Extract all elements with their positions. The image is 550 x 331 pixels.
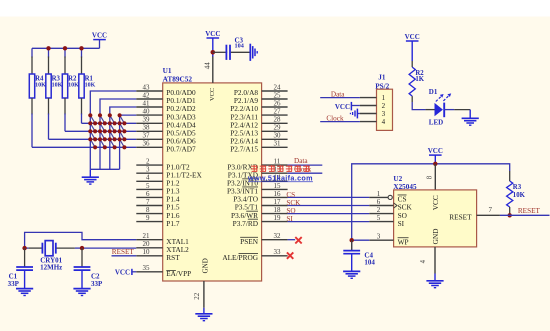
U1 right pin 18 <box>262 213 288 215</box>
capacitor C1 33P <box>24 248 26 267</box>
U1 right pin 13 <box>262 172 288 174</box>
svg-text:SI: SI <box>286 215 293 223</box>
svg-text:18: 18 <box>274 206 282 214</box>
svg-text:R3: R3 <box>513 184 522 191</box>
U1 left pin 4 <box>136 180 162 182</box>
U1 right pin 17 <box>262 205 288 207</box>
svg-text:17: 17 <box>274 198 282 206</box>
wire SI (MCU to U2) <box>288 221 370 223</box>
svg-text:41: 41 <box>143 99 151 107</box>
svg-text:33: 33 <box>274 248 282 256</box>
svg-text:12MHz: 12MHz <box>40 264 62 272</box>
svg-text:21: 21 <box>143 232 151 240</box>
wire key column 4 (from pin 40) <box>120 115 137 169</box>
U1 right pin 31 <box>262 146 288 148</box>
svg-text:30: 30 <box>274 132 282 140</box>
wire key row 4 (to pin 36) <box>32 146 136 148</box>
svg-text:P0.7/AD7: P0.7/AD7 <box>166 145 196 154</box>
LED light arrows <box>436 96 449 102</box>
U1 left pin 42 <box>136 98 162 100</box>
svg-text:1K: 1K <box>415 76 424 83</box>
wire keypad common bus to ground <box>90 168 119 170</box>
U1 left pin 3 <box>136 172 162 174</box>
U1 left pin 39 <box>136 122 162 124</box>
svg-text:VCC: VCC <box>428 147 443 155</box>
ground (U1 GND) <box>195 314 212 321</box>
U2 pin 2 <box>369 213 393 215</box>
U1 right pin 26 <box>262 106 288 108</box>
wire RESET net (right) <box>500 214 550 216</box>
svg-text:R3: R3 <box>52 75 61 82</box>
svg-text:VCC: VCC <box>405 33 420 41</box>
wire key column 2 (from pin 42) <box>100 99 136 169</box>
no-connect X (ALE/PROG) <box>287 252 293 258</box>
wire WP to C4 rail <box>352 239 370 241</box>
IC U1 AT89C52 <box>163 83 262 281</box>
svg-text:X25045: X25045 <box>393 183 417 191</box>
wire SCK (MCU to U2) <box>288 205 370 207</box>
svg-text:10K: 10K <box>52 82 63 88</box>
key switch S9 <box>90 131 95 139</box>
key switch S4 <box>120 115 125 123</box>
U1 right pin 28 <box>262 122 288 124</box>
U1 right pin 11 <box>262 164 288 166</box>
U1 right pin 27 <box>262 114 288 116</box>
resistor R4 10K <box>31 57 33 75</box>
U1 left pin 20 <box>136 247 162 249</box>
svg-text:Clock: Clock <box>326 114 344 122</box>
svg-text:44: 44 <box>203 62 211 70</box>
wire key column 3 (from pin 41) <box>110 107 137 169</box>
ground (keypad) <box>82 177 99 184</box>
power symbol VCC (J1 pin 2) <box>350 102 352 111</box>
svg-text:LED: LED <box>429 119 443 127</box>
svg-text:42: 42 <box>143 91 151 99</box>
ground (C1) <box>16 289 33 296</box>
capacitor C2 33P <box>81 248 83 267</box>
junction dots on VCC bus <box>46 46 50 50</box>
svg-text:RST: RST <box>166 253 180 262</box>
svg-text:40: 40 <box>143 108 151 116</box>
U1 left pin 6 <box>136 196 162 198</box>
svg-text:28: 28 <box>274 116 282 124</box>
IC U2 X25045 <box>394 190 477 247</box>
wire PSEN stub <box>288 239 296 241</box>
junction U2 VCC <box>433 162 437 166</box>
svg-text:33P: 33P <box>91 280 103 288</box>
no-connect X (PSEN) <box>295 237 301 243</box>
key switch S7 <box>110 123 115 131</box>
svg-text:SCK: SCK <box>286 199 301 207</box>
U1 left pin 41 <box>136 106 162 108</box>
U1 left pin 9 <box>136 221 162 223</box>
U2 pin 6 <box>369 205 393 207</box>
svg-text:4: 4 <box>382 118 386 126</box>
svg-text:5: 5 <box>146 182 150 190</box>
svg-text:33P: 33P <box>8 280 20 288</box>
power symbol VCC (U1 pin 44) <box>207 37 220 39</box>
svg-text:P3.7/RD: P3.7/RD <box>233 219 258 228</box>
svg-text:15: 15 <box>274 182 282 190</box>
svg-text:P2.7/A15: P2.7/A15 <box>230 145 258 154</box>
U1 top pin 44 VCC <box>212 56 214 83</box>
svg-text:R2: R2 <box>68 75 77 82</box>
power symbol VCC (U2) <box>429 154 442 156</box>
svg-text:2: 2 <box>382 102 386 110</box>
key switch S11 <box>110 131 115 139</box>
svg-text:GND: GND <box>431 229 440 245</box>
J1 pin 3 <box>360 113 377 115</box>
U1 right pin 14 <box>262 180 288 182</box>
ground (U2 GND) <box>426 281 443 288</box>
U2 pin 8 VCC <box>434 164 436 190</box>
svg-text:J1: J1 <box>378 73 386 81</box>
svg-text:VCC: VCC <box>92 31 107 39</box>
ground (C2) <box>73 289 90 296</box>
junction crystal left <box>22 246 26 250</box>
U1 left pin 8 <box>136 213 162 215</box>
resistor R2 10K <box>64 57 66 75</box>
svg-text:1: 1 <box>377 190 381 198</box>
U1 left pin 2 <box>136 164 162 166</box>
wire R3 to key row 3 <box>48 114 50 140</box>
svg-text:31: 31 <box>274 140 282 148</box>
resistor R1 10K <box>81 57 83 75</box>
svg-text:36: 36 <box>143 140 151 148</box>
svg-text:D1: D1 <box>429 88 438 96</box>
svg-text:19: 19 <box>274 214 282 222</box>
svg-text:SI: SI <box>398 219 405 228</box>
svg-text:10K: 10K <box>513 192 526 199</box>
svg-text:3: 3 <box>146 166 150 174</box>
U1 left pin 36 <box>136 146 162 148</box>
svg-text:9: 9 <box>146 214 150 222</box>
ground (J1 pin 3, rotated left) <box>357 113 360 115</box>
wire key row 3 (to pin 37) <box>49 138 137 140</box>
key switch S12 <box>120 131 125 139</box>
wire Data (J1 pin 1) <box>320 97 360 99</box>
svg-text:16: 16 <box>274 190 282 198</box>
power symbol VCC (R2) <box>406 40 419 42</box>
wire Clock (P3.1) <box>288 172 323 174</box>
svg-text:RESET: RESET <box>449 213 472 222</box>
svg-text:CS: CS <box>286 191 295 199</box>
key switch S10 <box>100 131 105 139</box>
svg-text:6: 6 <box>377 198 381 206</box>
key switch S5 <box>90 123 95 131</box>
wire CS (MCU to U2) <box>288 196 370 198</box>
watermark red text (chinese) <box>251 165 310 172</box>
U2 pin 1 <box>369 196 388 198</box>
wire SO (MCU to U2) <box>288 213 370 215</box>
ground (LED) <box>462 118 479 125</box>
svg-text:104: 104 <box>364 258 375 266</box>
U1 right pin 16 <box>262 196 288 198</box>
svg-text:VCC: VCC <box>335 103 350 111</box>
ground (C4) <box>343 271 360 278</box>
ground (C3, rotated) <box>250 44 257 61</box>
wire XTAL1 net <box>25 232 137 248</box>
svg-text:25: 25 <box>274 91 282 99</box>
resistor R3 10K <box>48 57 50 75</box>
svg-text:39: 39 <box>143 116 151 124</box>
wire R4 to key row 4 <box>31 114 33 148</box>
svg-text:VCC: VCC <box>209 88 216 101</box>
wire RESET to RST pin <box>112 255 137 257</box>
svg-text:43: 43 <box>143 83 151 91</box>
U2 pin 7 RESET <box>477 214 500 216</box>
svg-text:35: 35 <box>143 264 151 272</box>
svg-text:2: 2 <box>377 206 381 214</box>
U1 right pin 33 <box>262 255 288 257</box>
svg-text:3: 3 <box>382 110 386 118</box>
svg-text:www.51kaifa.com: www.51kaifa.com <box>247 173 313 182</box>
wire VCC rail above U2 <box>352 164 510 251</box>
svg-text:38: 38 <box>143 124 151 132</box>
key switch S16 <box>120 139 125 147</box>
junction C4/WP <box>350 238 354 242</box>
key switch S1 <box>90 115 95 123</box>
resistor R3 10K <box>509 171 511 181</box>
wire R1 to key row 1 <box>81 114 83 124</box>
svg-text:7: 7 <box>489 206 493 214</box>
U1 right pin 19 <box>262 221 288 223</box>
key switch S8 <box>120 123 125 131</box>
svg-text:AT89C52: AT89C52 <box>163 74 193 83</box>
U1 right pin 24 <box>262 90 288 92</box>
svg-text:29: 29 <box>274 124 282 132</box>
svg-text:27: 27 <box>274 108 282 116</box>
wire Clock (J1 pin 4) <box>320 121 360 123</box>
wire VCC bus top-left <box>32 47 100 49</box>
svg-text:Data: Data <box>331 90 345 98</box>
svg-text:2: 2 <box>146 158 150 166</box>
wire R2 to key row 2 <box>64 114 66 132</box>
svg-text:R4: R4 <box>35 75 44 82</box>
U2 pin 5 <box>369 221 393 223</box>
LED D1 <box>435 103 443 116</box>
U1 bottom pin 22 GND <box>203 281 205 308</box>
wire XTAL2 net <box>82 247 136 249</box>
svg-text:ALE/PROG: ALE/PROG <box>222 253 258 262</box>
power symbol VCC (resistor bank) <box>99 40 101 48</box>
wire LED to ground <box>444 109 454 111</box>
U1 right pin 30 <box>262 138 288 140</box>
capacitor C3 104 <box>213 51 227 53</box>
J1 pin 2 <box>360 105 377 107</box>
svg-text:5: 5 <box>377 214 381 222</box>
key switch S13 <box>90 139 95 147</box>
svg-text:32: 32 <box>274 232 282 240</box>
U1 left pin 21 <box>136 239 162 241</box>
svg-text:20: 20 <box>143 240 151 248</box>
svg-text:6: 6 <box>146 190 150 198</box>
connector J1 PS/2 <box>377 89 393 130</box>
svg-text:RESET: RESET <box>112 248 135 256</box>
svg-text:SO: SO <box>286 207 295 215</box>
capacitor C4 104 <box>351 240 353 250</box>
svg-text:PS/2: PS/2 <box>375 82 389 90</box>
svg-text:VCC: VCC <box>115 268 130 276</box>
U2 pin 3 <box>369 239 393 241</box>
key switch S2 <box>100 115 105 123</box>
wire key column 1 (from pin 43) <box>90 91 136 169</box>
svg-text:VCC: VCC <box>205 30 220 38</box>
U1 left pin 43 <box>136 90 162 92</box>
svg-text:10K: 10K <box>35 82 46 88</box>
svg-text:10: 10 <box>143 248 151 256</box>
junction crystal right <box>80 246 84 250</box>
crystal CRY01 12MHz <box>25 247 29 249</box>
svg-text:4: 4 <box>420 259 427 263</box>
U1 right pin 29 <box>262 130 288 132</box>
U2 pin 4 GND <box>434 247 436 274</box>
svg-text:P1.7: P1.7 <box>166 219 180 228</box>
key switch S15 <box>110 139 115 147</box>
svg-text:RESET: RESET <box>518 207 541 215</box>
svg-text:22: 22 <box>193 292 201 300</box>
key switch S3 <box>110 115 115 123</box>
U1 left pin 35 <box>136 271 162 273</box>
svg-text:VCC: VCC <box>431 195 440 210</box>
U1 right pin 15 <box>262 188 288 190</box>
svg-text:24: 24 <box>274 83 282 91</box>
J1 pin 4 <box>360 121 377 123</box>
svg-text:R1: R1 <box>85 75 94 82</box>
svg-text:EA/VPP: EA/VPP <box>166 270 191 278</box>
U1 left pin 5 <box>136 188 162 190</box>
J1 pin 1 <box>360 97 377 99</box>
svg-text:10K: 10K <box>85 82 96 88</box>
wire Data (P3.0) <box>288 164 323 166</box>
U1 left pin 37 <box>136 138 162 140</box>
wire R2 to LED <box>412 102 425 110</box>
key switch S14 <box>100 139 105 147</box>
svg-text:11: 11 <box>274 158 281 166</box>
U1 left pin 10 <box>136 255 162 257</box>
svg-text:4: 4 <box>146 174 150 182</box>
junction RESET/R3 <box>508 213 512 217</box>
svg-text:7: 7 <box>146 198 150 206</box>
svg-text:WP: WP <box>398 237 409 246</box>
wire key row 2 (to pin 38) <box>65 130 136 132</box>
svg-text:GND: GND <box>202 258 210 273</box>
svg-text:26: 26 <box>274 99 282 107</box>
U1 left pin 40 <box>136 114 162 116</box>
svg-text:Data: Data <box>294 157 308 165</box>
U1 left pin 38 <box>136 130 162 132</box>
svg-text:1: 1 <box>382 94 386 102</box>
svg-text:104: 104 <box>235 42 244 49</box>
svg-text:3: 3 <box>377 233 381 241</box>
svg-text:10K: 10K <box>68 82 79 88</box>
resistor R2 1K <box>411 61 413 67</box>
U1 right pin 25 <box>262 98 288 100</box>
key switch S6 <box>100 123 105 131</box>
U1 left pin 7 <box>136 205 162 207</box>
svg-text:37: 37 <box>143 132 151 140</box>
wire key row 1 (to pin 39) <box>82 122 137 124</box>
power symbol VCC at EA/VPP pin 35 <box>131 269 133 275</box>
U1 right pin 32 <box>262 239 288 241</box>
junction VCC/C3 <box>211 50 216 55</box>
svg-text:8: 8 <box>426 175 433 179</box>
svg-text:PSEN: PSEN <box>240 237 259 246</box>
svg-text:8: 8 <box>146 206 150 214</box>
